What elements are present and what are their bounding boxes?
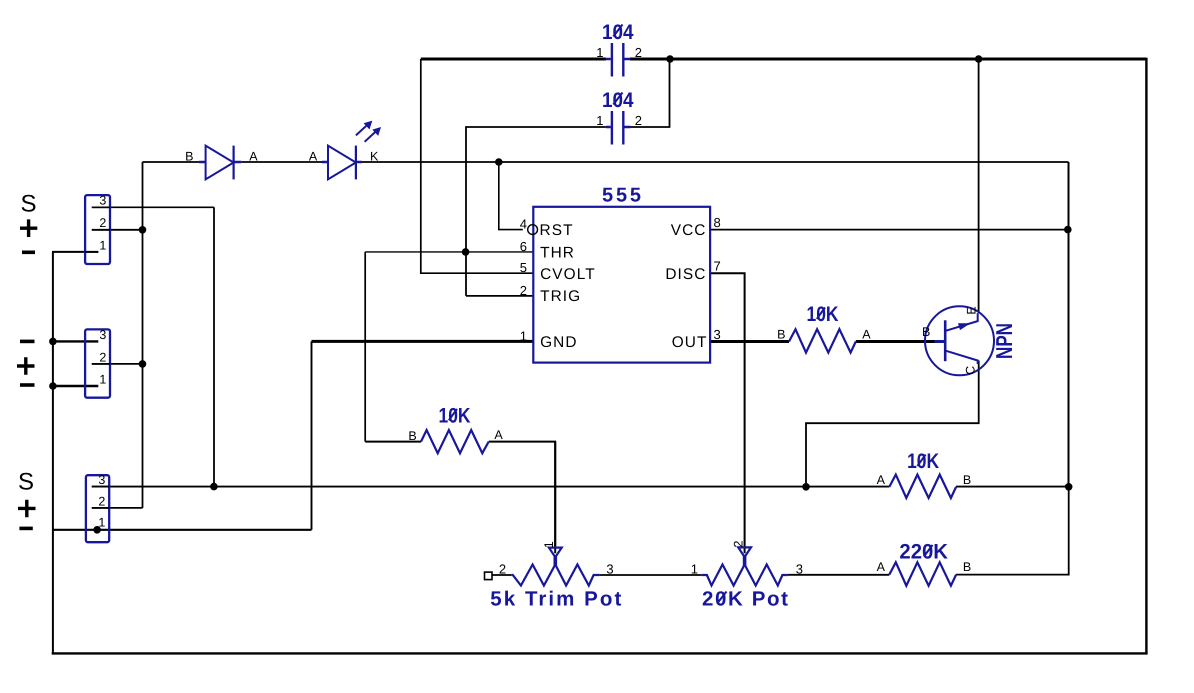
svg-text:K: K — [370, 149, 379, 163]
transistor Q1 NPN — [922, 306, 1017, 375]
wire cap C2 pin2 up to top rail — [630, 59, 670, 127]
wire LED cathode row — [362, 161, 1069, 163]
svg-text:S: S — [18, 469, 34, 496]
svg-text:B: B — [922, 325, 930, 339]
node J2 label - top — [20, 340, 35, 344]
wire bottom border — [52, 652, 1148, 654]
pin square VR1 pin2 — [485, 572, 493, 580]
wire vertical x142 pin2 bus — [142, 162, 144, 508]
node J2 pin1 junction — [49, 382, 57, 390]
svg-text:3: 3 — [606, 562, 613, 577]
svg-text:10K: 10K — [807, 303, 839, 326]
node J2 pin3 junction — [49, 338, 57, 346]
potentiometer VR2 20K Pot — [691, 540, 803, 610]
node J2 label - bottom — [20, 383, 35, 387]
wire vertical x1068 VCC riser — [1068, 162, 1070, 487]
node cap C2/top rail junction — [666, 55, 674, 63]
svg-text:220K: 220K — [899, 541, 948, 564]
connector J3 — [18, 469, 109, 543]
wire left vertical bus — [52, 252, 54, 654]
svg-text:B: B — [185, 149, 193, 163]
svg-text:2: 2 — [98, 494, 105, 508]
wire vertical x311 GND drop — [311, 341, 313, 529]
svg-text:2: 2 — [499, 562, 506, 577]
wire top rail right segment — [630, 58, 1147, 61]
svg-text:2: 2 — [635, 45, 642, 60]
svg-text:1: 1 — [520, 328, 527, 343]
wire connector J1 pin1 to left bus — [52, 251, 98, 253]
svg-text:DISC: DISC — [665, 266, 706, 283]
svg-text:10K: 10K — [439, 404, 471, 427]
resistor R4 220K — [877, 541, 972, 586]
svg-text:5k Trim Pot: 5k Trim Pot — [490, 588, 621, 611]
node RST drop junction — [495, 158, 503, 166]
svg-text:A: A — [494, 428, 503, 442]
wire vertical x365 THR to R1 — [364, 252, 366, 442]
svg-text:2: 2 — [635, 113, 642, 128]
connector J2 — [17, 328, 110, 398]
svg-text:C: C — [964, 366, 978, 375]
wire trim wiper black top — [554, 442, 556, 554]
connector J1 — [20, 191, 110, 265]
pin 4 RST bubble — [528, 225, 538, 235]
wire diode to LED — [241, 161, 322, 163]
wire connector J2 pin3 to left bus — [53, 340, 98, 342]
capacitor C2 104 — [596, 89, 642, 145]
svg-text:104: 104 — [602, 21, 634, 44]
wire trim pot pin2 stub — [492, 574, 511, 576]
svg-text:3: 3 — [714, 327, 721, 342]
svg-text:2: 2 — [520, 283, 527, 298]
wire connector J2 pin1 to left bus — [53, 385, 98, 387]
wire GND pin 1 — [312, 340, 534, 343]
capacitor C1 104 — [596, 21, 642, 77]
svg-text:7: 7 — [714, 259, 721, 274]
wire right border — [1145, 58, 1147, 654]
node J1 pin2 junction — [139, 226, 147, 234]
svg-text:4: 4 — [520, 216, 527, 231]
node J3 label + — [18, 500, 36, 518]
svg-text:5: 5 — [520, 260, 527, 275]
svg-text:1: 1 — [596, 45, 603, 60]
svg-text:VCC: VCC — [671, 222, 707, 239]
svg-text:S: S — [20, 191, 36, 218]
wire connector J3 pin3 net row left — [92, 486, 890, 488]
wire vertical x214 J1 pin3 down to net row — [213, 207, 215, 486]
wire 220K B riser — [956, 487, 1069, 575]
svg-text:1: 1 — [99, 372, 106, 386]
wire connector J1 pin3 — [92, 206, 214, 208]
wiper arrow VR1 — [549, 548, 562, 558]
svg-text:3: 3 — [99, 194, 106, 208]
wire VCC pin 8 — [710, 229, 1068, 231]
svg-text:3: 3 — [99, 328, 106, 342]
svg-text:1: 1 — [99, 238, 106, 252]
wire connector J1 pin2 — [92, 229, 143, 231]
svg-text:A: A — [862, 328, 871, 342]
svg-text:1: 1 — [596, 113, 603, 128]
svg-text:GND: GND — [540, 334, 578, 351]
node x214 net row junction — [210, 483, 218, 491]
diode D1 — [185, 146, 258, 180]
svg-text:2: 2 — [732, 540, 746, 547]
svg-text:20K Pot: 20K Pot — [702, 588, 788, 611]
svg-text:3: 3 — [98, 473, 105, 487]
wire THR pin 6 — [365, 251, 533, 253]
svg-text:2: 2 — [99, 350, 106, 364]
svg-text:1: 1 — [98, 516, 105, 530]
node J1 label + — [20, 219, 37, 237]
svg-text:1: 1 — [542, 541, 556, 548]
svg-text:A: A — [309, 149, 318, 163]
svg-text:104: 104 — [602, 89, 634, 112]
wire connector J2 pin2 — [92, 363, 143, 365]
wire RST drop — [499, 162, 523, 230]
svg-text:B: B — [963, 560, 971, 574]
LED D2 — [309, 121, 381, 180]
op-amp/IC U1 555 — [520, 185, 721, 363]
wire cap C1 pin1 to CVOLT — [421, 59, 533, 273]
node net row / riser junction — [1065, 483, 1073, 491]
svg-text:2: 2 — [99, 216, 106, 230]
svg-text:B: B — [963, 473, 971, 487]
svg-text:TRIG: TRIG — [540, 288, 581, 305]
svg-text:OUT: OUT — [672, 334, 708, 351]
svg-text:B: B — [408, 429, 416, 443]
svg-text:A: A — [249, 149, 258, 163]
node J3 pin1 junction — [93, 526, 101, 534]
wiper arrow VR2 — [738, 547, 751, 557]
svg-text:E: E — [964, 306, 978, 314]
wire ground row y530 — [53, 529, 312, 531]
wire R2 A to transistor base — [856, 340, 935, 343]
wire top rail left segment — [421, 58, 606, 61]
svg-text:6: 6 — [520, 239, 527, 254]
svg-text:RST: RST — [540, 222, 574, 239]
node J2 label + — [17, 357, 35, 375]
wire R1 A lead to wiper drop — [489, 442, 556, 548]
node THR junction — [462, 248, 470, 256]
wire collector path — [806, 361, 979, 487]
wire DISC pin 7 to 20K wiper — [710, 273, 745, 553]
resistor R2 10K (base) — [777, 303, 871, 353]
emitter line — [945, 313, 978, 331]
wire cap C2 pin1 left — [466, 127, 606, 296]
svg-text:CVOLT: CVOLT — [540, 266, 596, 283]
node J2 pin2 junction — [139, 360, 147, 368]
svg-text:10K: 10K — [907, 450, 939, 473]
wire R1 B lead — [365, 441, 421, 443]
collector line — [945, 351, 978, 364]
node VCC riser junction — [1064, 226, 1072, 234]
svg-text:THR: THR — [540, 245, 575, 262]
wire net row right of R3 — [956, 486, 1069, 488]
wire TRIG pin 2 — [466, 295, 533, 297]
svg-text:A: A — [877, 560, 886, 574]
wire 20K pot pin3 to 220K A — [788, 574, 889, 576]
svg-text:B: B — [777, 328, 785, 342]
svg-text:8: 8 — [714, 215, 721, 230]
node J1 label - — [22, 251, 35, 255]
wire connector J3 pin2 — [92, 507, 143, 509]
node emitter/top rail junction — [975, 55, 983, 63]
svg-text:555: 555 — [602, 185, 641, 207]
resistor R1 10K (mid) — [408, 404, 503, 453]
potentiometer VR1 5k Trim Pot — [485, 541, 622, 610]
node J3 label - — [19, 527, 32, 531]
wire diode anode feed — [143, 161, 200, 163]
node collector net row junction — [802, 483, 810, 491]
wire OUT pin 3 — [710, 340, 789, 343]
wire emitter riser — [978, 59, 980, 313]
svg-text:A: A — [877, 473, 886, 487]
svg-text:3: 3 — [796, 562, 803, 577]
resistor R3 10K (right) — [877, 450, 972, 498]
wire trim pot pin3 to 20K pot pin1 — [600, 574, 702, 576]
svg-text:1: 1 — [691, 562, 698, 577]
svg-text:NPN: NPN — [991, 323, 1017, 359]
